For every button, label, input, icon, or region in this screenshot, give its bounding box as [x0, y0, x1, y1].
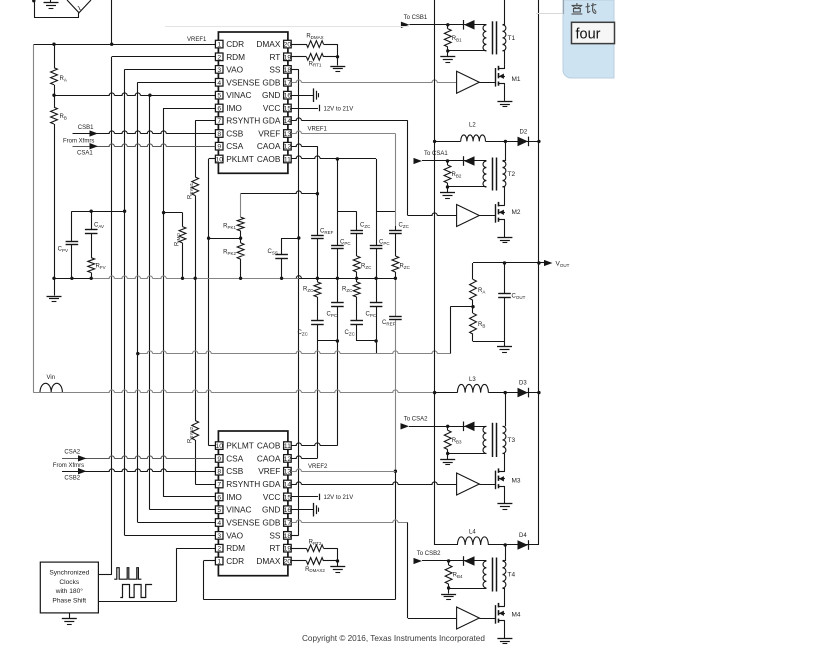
- svg-text:RT: RT: [269, 543, 280, 553]
- svg-text:M3: M3: [512, 478, 521, 485]
- svg-text:VREF2: VREF2: [308, 464, 328, 470]
- svg-text:11: 11: [284, 156, 291, 163]
- svg-text:T4: T4: [508, 572, 516, 579]
- svg-text:GDB: GDB: [262, 77, 280, 87]
- svg-text:17: 17: [284, 520, 292, 527]
- svg-text:RSYN2: RSYN2: [188, 426, 194, 443]
- svg-text:CAOA: CAOA: [257, 453, 281, 463]
- svg-text:6: 6: [217, 105, 221, 112]
- svg-text:PKLMT: PKLMT: [226, 441, 254, 451]
- svg-text:From Xfmrs: From Xfmrs: [63, 139, 94, 145]
- svg-text:SS: SS: [269, 64, 281, 74]
- svg-text:1: 1: [217, 42, 221, 49]
- svg-text:CSB1: CSB1: [78, 125, 94, 131]
- svg-text:DMAX: DMAX: [256, 39, 280, 49]
- svg-text:Copyright © 2016, Texas Instru: Copyright © 2016, Texas Instruments Inco…: [302, 634, 485, 643]
- svg-text:D4: D4: [519, 533, 527, 539]
- svg-text:CAV: CAV: [94, 223, 104, 229]
- svg-text:7: 7: [217, 118, 221, 125]
- svg-text:VREF1: VREF1: [187, 37, 207, 43]
- svg-text:13: 13: [284, 469, 292, 476]
- svg-text:To CSA2: To CSA2: [404, 416, 428, 422]
- svg-text:4: 4: [217, 80, 221, 87]
- svg-text:To CSB1: To CSB1: [404, 15, 428, 21]
- svg-text:CSB: CSB: [226, 466, 244, 476]
- svg-text:CAOA: CAOA: [257, 141, 281, 151]
- svg-text:T3: T3: [508, 437, 516, 444]
- svg-text:CDR: CDR: [226, 39, 244, 49]
- svg-text:D3: D3: [519, 381, 527, 387]
- svg-text:1: 1: [217, 558, 221, 565]
- svg-text:RA: RA: [478, 288, 485, 294]
- svg-text:14: 14: [284, 481, 292, 488]
- svg-text:L4: L4: [469, 530, 476, 536]
- svg-text:RIMO: RIMO: [175, 233, 181, 246]
- svg-text:T2: T2: [508, 171, 516, 178]
- svg-text:CDR: CDR: [226, 556, 244, 566]
- svg-text:SS: SS: [269, 530, 281, 540]
- svg-text:4: 4: [217, 520, 221, 527]
- svg-text:15: 15: [284, 105, 292, 112]
- svg-text:Clocks: Clocks: [59, 579, 79, 586]
- svg-text:VSENSE: VSENSE: [226, 77, 260, 87]
- svg-text:To CSA1: To CSA1: [424, 151, 448, 157]
- svg-text:RDMAX: RDMAX: [306, 34, 323, 40]
- svg-text:16: 16: [284, 93, 292, 100]
- svg-text:RZC: RZC: [400, 264, 411, 270]
- svg-text:19: 19: [284, 546, 292, 553]
- svg-text:VREF1: VREF1: [308, 127, 328, 133]
- svg-text:RB: RB: [478, 322, 485, 328]
- svg-text:D2: D2: [520, 130, 528, 136]
- svg-text:RSYNTH: RSYNTH: [226, 479, 260, 489]
- svg-text:20: 20: [284, 42, 292, 49]
- svg-text:6: 6: [217, 494, 221, 501]
- svg-text:CSA1: CSA1: [77, 151, 93, 157]
- svg-text:four: four: [576, 27, 601, 43]
- svg-text:8: 8: [217, 469, 221, 476]
- svg-text:RZC: RZC: [303, 287, 314, 293]
- svg-text:CPC: CPC: [379, 240, 390, 246]
- svg-text:RPK2: RPK2: [223, 250, 236, 256]
- svg-text:5: 5: [217, 93, 221, 100]
- svg-text:CSS: CSS: [268, 249, 278, 255]
- svg-text:10: 10: [215, 156, 223, 163]
- svg-text:CPC: CPC: [340, 240, 351, 246]
- svg-text:CREF: CREF: [382, 320, 396, 326]
- svg-text:19: 19: [284, 54, 292, 61]
- svg-text:12: 12: [284, 456, 292, 463]
- svg-text:RDMAX2: RDMAX2: [305, 567, 325, 573]
- svg-text:CREF: CREF: [320, 229, 334, 235]
- svg-text:CSA: CSA: [226, 453, 244, 463]
- svg-text:7: 7: [217, 481, 221, 488]
- svg-text:CAOB: CAOB: [257, 441, 281, 451]
- svg-text:12V to 21V: 12V to 21V: [324, 495, 354, 501]
- svg-text:3: 3: [217, 67, 221, 74]
- svg-text:with 180°: with 180°: [55, 587, 84, 595]
- svg-text:18: 18: [284, 67, 292, 74]
- svg-text:GDA: GDA: [262, 116, 280, 126]
- svg-text:GDB: GDB: [262, 518, 280, 528]
- svg-text:VCC: VCC: [263, 492, 281, 502]
- svg-text:RPK1: RPK1: [223, 224, 236, 230]
- svg-text:DMAX: DMAX: [256, 556, 280, 566]
- svg-text:CSA: CSA: [226, 141, 244, 151]
- svg-text:16: 16: [284, 507, 292, 514]
- svg-text:11: 11: [284, 443, 291, 450]
- svg-text:RDM: RDM: [226, 52, 245, 62]
- svg-text:RDM: RDM: [226, 543, 245, 553]
- svg-text:14: 14: [284, 118, 292, 125]
- svg-text:To CSB2: To CSB2: [417, 551, 441, 557]
- svg-text:RSYNTH: RSYNTH: [226, 116, 260, 126]
- svg-text:CZC: CZC: [360, 223, 371, 229]
- svg-text:RSYN1: RSYN1: [188, 182, 194, 199]
- svg-text:GDA: GDA: [262, 479, 280, 489]
- svg-text:17: 17: [284, 80, 292, 87]
- svg-text:VAO: VAO: [226, 530, 243, 540]
- svg-text:T1: T1: [508, 35, 516, 42]
- svg-text:RA: RA: [60, 76, 67, 82]
- svg-text:VINAC: VINAC: [226, 505, 251, 515]
- svg-text:8: 8: [217, 131, 221, 138]
- svg-text:RZC: RZC: [342, 287, 353, 293]
- svg-text:RT: RT: [269, 52, 280, 62]
- svg-text:Synchronized: Synchronized: [49, 570, 89, 577]
- svg-text:5: 5: [217, 507, 221, 514]
- svg-text:GND: GND: [262, 505, 280, 515]
- svg-text:VINAC: VINAC: [226, 90, 251, 100]
- svg-text:RB4: RB4: [453, 573, 463, 579]
- svg-text:M1: M1: [512, 76, 521, 83]
- svg-text:RB1: RB1: [452, 36, 462, 42]
- svg-text:VCC: VCC: [263, 103, 281, 113]
- svg-text:VSENSE: VSENSE: [226, 518, 260, 528]
- svg-text:CPC: CPC: [327, 312, 338, 318]
- svg-text:CZC: CZC: [399, 223, 410, 229]
- svg-text:IMO: IMO: [226, 103, 242, 113]
- svg-text:12V to 21V: 12V to 21V: [324, 106, 354, 112]
- svg-text:COUT: COUT: [512, 294, 526, 300]
- svg-text:20: 20: [284, 558, 292, 565]
- svg-text:L2: L2: [469, 123, 476, 129]
- svg-text:RRT2: RRT2: [309, 540, 322, 546]
- svg-text:L3: L3: [469, 377, 476, 383]
- svg-text:CSA2: CSA2: [64, 449, 80, 455]
- svg-text:Vin: Vin: [47, 375, 56, 381]
- svg-text:2: 2: [217, 54, 221, 61]
- svg-text:RB3: RB3: [452, 438, 462, 444]
- svg-text:2: 2: [217, 546, 221, 553]
- svg-text:Phase Shift: Phase Shift: [52, 597, 86, 604]
- svg-text:13: 13: [284, 131, 292, 138]
- svg-text:RZC: RZC: [361, 264, 372, 270]
- svg-text:VREF: VREF: [258, 129, 280, 139]
- svg-text:VAO: VAO: [226, 64, 243, 74]
- svg-text:12: 12: [284, 144, 292, 151]
- svg-text:CPV: CPV: [58, 247, 68, 253]
- svg-text:GND: GND: [262, 90, 280, 100]
- svg-text:CZC: CZC: [345, 330, 356, 336]
- svg-text:CSB2: CSB2: [64, 475, 80, 481]
- svg-text:PKLMT: PKLMT: [226, 154, 254, 164]
- svg-text:RB: RB: [60, 114, 67, 120]
- svg-text:CZC: CZC: [298, 330, 309, 336]
- svg-text:VREF: VREF: [258, 466, 280, 476]
- svg-text:M2: M2: [512, 209, 521, 216]
- svg-text:9: 9: [217, 456, 221, 463]
- svg-text:RFV: RFV: [96, 264, 106, 270]
- svg-text:CPC: CPC: [366, 312, 377, 318]
- svg-text:10: 10: [215, 443, 223, 450]
- svg-text:CAOB: CAOB: [257, 154, 281, 164]
- svg-text:RB2: RB2: [452, 172, 462, 178]
- svg-text:18: 18: [284, 533, 292, 540]
- svg-text:CSB: CSB: [226, 129, 244, 139]
- svg-text:RRT1: RRT1: [309, 61, 322, 67]
- svg-text:3: 3: [217, 533, 221, 540]
- svg-text:From Xfmrs: From Xfmrs: [53, 463, 84, 469]
- svg-text:15: 15: [284, 494, 292, 501]
- svg-text:9: 9: [217, 144, 221, 151]
- svg-text:IMO: IMO: [226, 492, 242, 502]
- svg-text:M4: M4: [512, 612, 521, 619]
